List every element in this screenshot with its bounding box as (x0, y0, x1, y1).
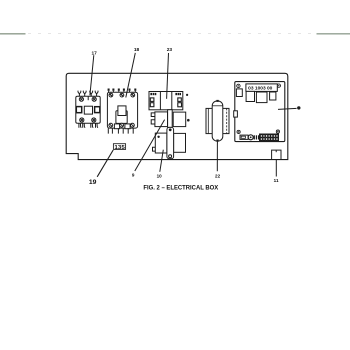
capacitor 22 bracket (206, 108, 229, 133)
contactor 18 bottom terminal blocks (114, 124, 130, 129)
transformer 23 marking text left (150, 93, 156, 95)
component 11 box (272, 150, 281, 159)
contactor 17 middle squares (76, 106, 99, 114)
leader line 22 (216, 141, 218, 171)
relay 10 mounting bar (167, 127, 174, 158)
contactor 17 top screws (79, 97, 96, 101)
transformer 23 body (149, 92, 183, 110)
svg-text:22: 22 (215, 173, 221, 178)
leader line 17 (90, 55, 94, 95)
svg-text:135: 135 (114, 145, 124, 151)
relay 9 left tabs (151, 113, 155, 124)
page rule line top (0, 33, 350, 35)
contactor 17 bottom prongs (79, 123, 98, 128)
fuse 19 (113, 144, 125, 151)
control board 8 outline (235, 82, 285, 142)
svg-text:03 1003 00: 03 1003 00 (248, 85, 273, 90)
contactor 17 top spade terminals (78, 91, 98, 97)
contactor 18 bottom prongs (108, 128, 133, 134)
relay 10 left tab (153, 147, 156, 151)
svg-text:19: 19 (89, 179, 97, 186)
tiny dot marker near relay 9 (187, 119, 190, 122)
label 8 dot (297, 106, 300, 109)
tiny dot marker near relay 10 (157, 136, 159, 138)
control board 8 pin connector (260, 134, 279, 141)
relay 9 right block (173, 112, 186, 127)
relay 10 right block (174, 133, 186, 152)
control board 8 round component (248, 135, 253, 140)
contactor 18 top screws (109, 93, 135, 97)
leader line 23 (167, 53, 169, 99)
leader line 19 (97, 150, 113, 177)
contactor 18 inner pedestal (116, 106, 127, 124)
svg-text:9: 9 (132, 173, 135, 178)
leader line 11 (275, 160, 277, 177)
svg-text:11: 11 (274, 178, 279, 183)
control board 8 labelled relay strip (246, 84, 277, 92)
svg-text:17: 17 (92, 51, 98, 57)
svg-text:10: 10 (157, 173, 163, 178)
svg-text:FIG. 2 – ELECTRICAL BOX: FIG. 2 – ELECTRICAL BOX (143, 184, 218, 191)
svg-text:18: 18 (134, 47, 140, 53)
transformer 23 terminals (150, 98, 181, 107)
control board 8 small bars (254, 135, 260, 139)
leader line 18 (126, 53, 136, 98)
contactor 18 bottom screws (109, 123, 134, 127)
tiny dot marker near transformer 23 (186, 94, 188, 96)
relay 9 left block (155, 112, 168, 127)
svg-text:23: 23 (167, 47, 173, 53)
leader line 9 (135, 120, 165, 171)
relay 9 mounting bar (168, 110, 173, 128)
leader line 8 (278, 108, 297, 109)
contactor 18 top tabs (108, 89, 137, 93)
relay 10 left block (155, 133, 167, 153)
transformer 23 marking text right (175, 93, 181, 95)
control board 8 top-left component (236, 89, 242, 97)
control board 8 jumper (240, 135, 248, 139)
capacitor 22 can (212, 100, 223, 142)
control board 8 component blocks (246, 91, 276, 102)
contactor 17 body (76, 96, 100, 123)
contactor 18 body (107, 92, 137, 128)
electrical box outline (66, 73, 288, 159)
control board 8 left edge tab (234, 111, 238, 117)
contactor 17 bottom screws (80, 118, 96, 122)
control board 8 corner screws (237, 84, 281, 134)
leader line 10 (160, 150, 164, 172)
